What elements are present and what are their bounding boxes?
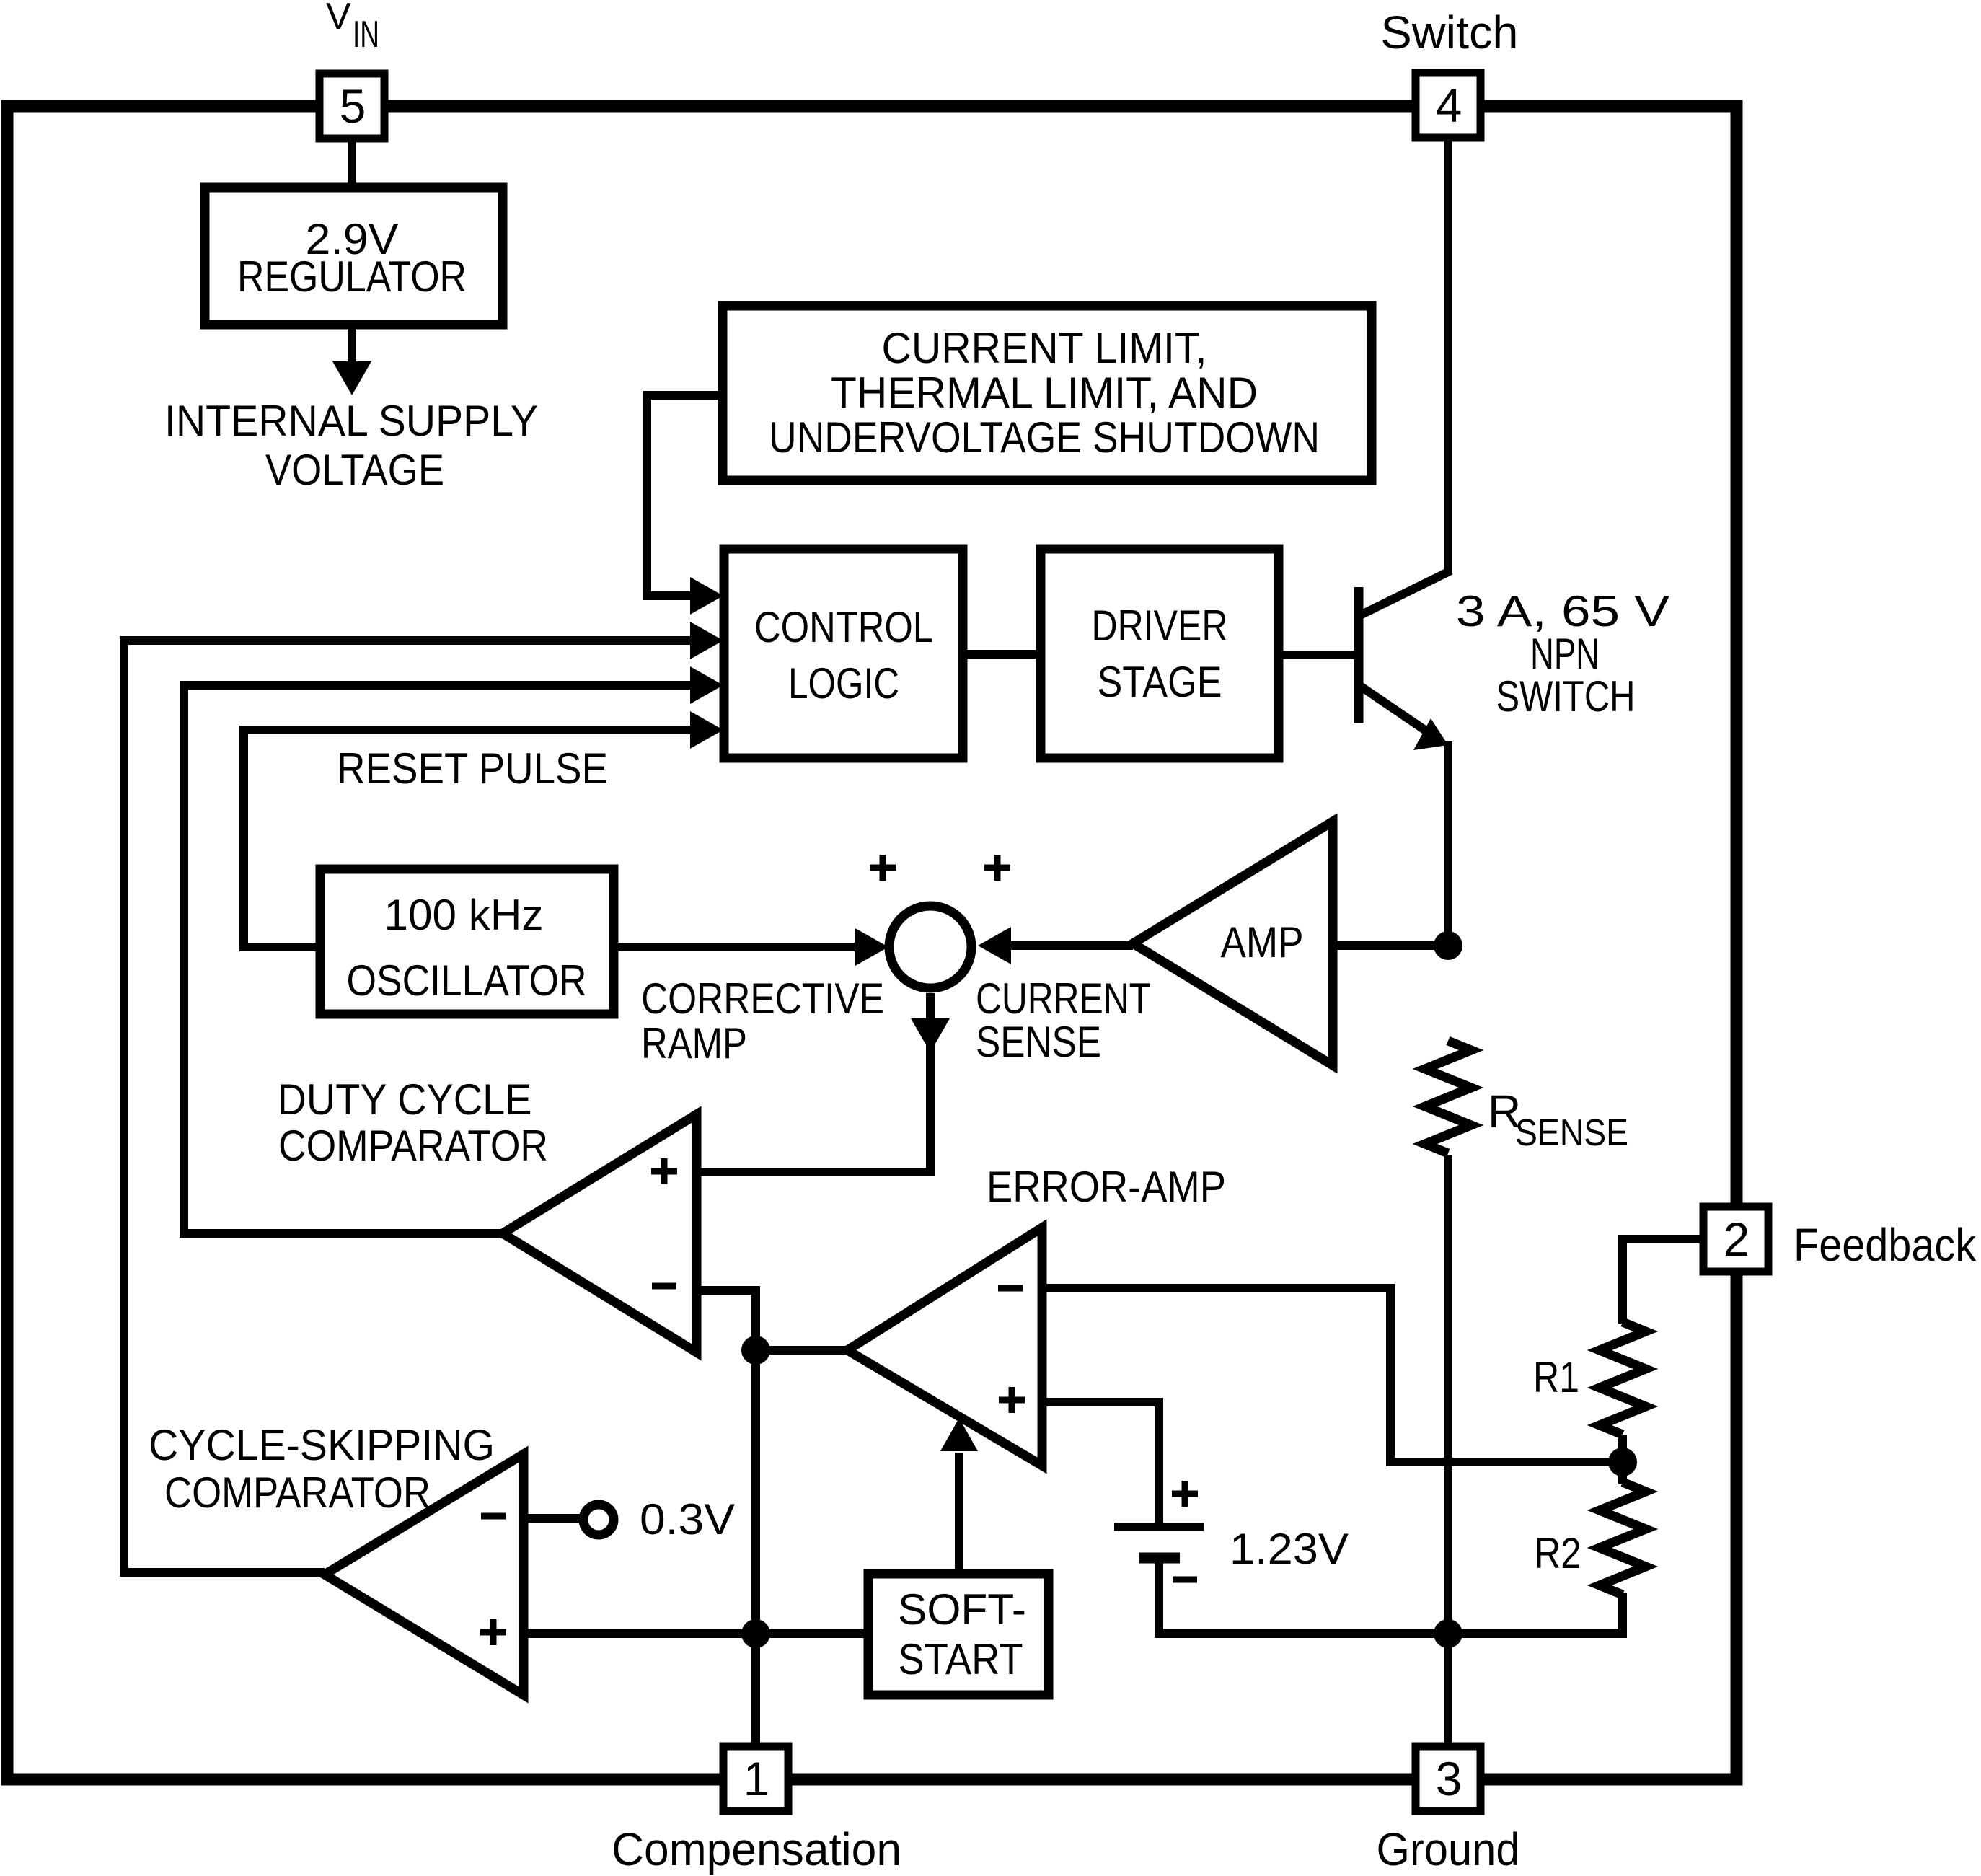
pin label Switch: [1381, 6, 1519, 58]
plus sign battery: [1172, 1481, 1198, 1507]
wire error amp minus input to feedback divider: [1042, 1288, 1623, 1462]
net label CORRECTIVE RAMP: [641, 974, 884, 1067]
value label 0.3V: [640, 1495, 735, 1543]
svg-text:RAMP: RAMP: [641, 1019, 747, 1067]
svg-text:CORRECTIVE: CORRECTIVE: [641, 974, 884, 1023]
net label CURRENT SENSE: [976, 974, 1151, 1066]
svg-text:Ground: Ground: [1377, 1823, 1520, 1875]
value label RSENSE: [1488, 1085, 1628, 1154]
plus sign at summing junction right input: [984, 855, 1010, 881]
svg-text:1.23V: 1.23V: [1230, 1525, 1349, 1573]
wire driver stage to transistor base: [1279, 651, 1359, 659]
wire pin5 to regulator: [348, 138, 356, 189]
pin 5 box: [319, 74, 384, 138]
svg-text:DRIVER: DRIVER: [1092, 602, 1228, 650]
svg-text:Feedback: Feedback: [1794, 1219, 1977, 1271]
resistor RSENSE: [1425, 1041, 1471, 1634]
pin label Compensation: [612, 1823, 901, 1875]
net label RESET PULSE: [337, 744, 608, 793]
block SOFT-START: [868, 1574, 1049, 1695]
svg-text:R1: R1: [1533, 1353, 1579, 1401]
battery 1.23V reference: [1114, 1527, 1204, 1558]
op-amp error amplifier: [847, 1228, 1042, 1466]
svg-text:3: 3: [1436, 1752, 1462, 1805]
pin label Ground: [1377, 1823, 1520, 1875]
svg-text:CYCLE-SKIPPING: CYCLE-SKIPPING: [149, 1421, 495, 1469]
plus sign at summing junction left input: [870, 855, 896, 881]
plus sign cycle-skipping comparator input: [480, 1619, 506, 1645]
plus sign error amp input: [999, 1387, 1025, 1413]
op-amp duty cycle comparator: [503, 1114, 697, 1352]
wire feedback pin to R1: [1623, 1239, 1703, 1324]
svg-text:Switch: Switch: [1381, 6, 1519, 58]
junction dot error amp output: [741, 1336, 770, 1365]
wire error amp output: [756, 1346, 847, 1355]
svg-text:CONTROL: CONTROL: [754, 603, 933, 651]
outer border of IC block: [7, 106, 1737, 1779]
pin 4 box: [1416, 73, 1481, 138]
label CYCLE-SKIPPING COMPARATOR: [149, 1421, 495, 1517]
block CURRENT LIMIT, THERMAL LIMIT, AND UNDERVOLTAGE SHUTDOWN: [723, 306, 1372, 480]
wire corrective ramp: summing junction down to duty cycle comparator plus input: [697, 993, 950, 1172]
junction dot compensation node: [741, 1619, 770, 1648]
transistor Q1 emitter with arrow: [1360, 686, 1448, 946]
value label R1: [1533, 1353, 1579, 1401]
pin 3 box: [1416, 1746, 1481, 1811]
transistor Q1 base bar: [1354, 587, 1364, 723]
summing junction circle: [889, 906, 971, 988]
svg-text:INTERNAL SUPPLY: INTERNAL SUPPLY: [164, 397, 538, 445]
pin label Feedback: [1794, 1219, 1977, 1271]
op-amp cycle-skipping comparator: [325, 1454, 524, 1695]
svg-text:STAGE: STAGE: [1098, 658, 1222, 706]
svg-text:VOLTAGE: VOLTAGE: [265, 446, 444, 494]
svg-text:R2: R2: [1535, 1529, 1581, 1577]
transistor Q1 collector: [1360, 138, 1451, 615]
svg-text:AMP: AMP: [1221, 918, 1304, 966]
svg-text:DUTY CYCLE: DUTY CYCLE: [278, 1075, 532, 1124]
plus sign duty cycle comparator input: [651, 1158, 677, 1184]
svg-text:100 kHz: 100 kHz: [384, 891, 544, 939]
block CONTROL LOGIC: [724, 549, 963, 758]
junction dot ground node: [1434, 1619, 1462, 1648]
wire error amp plus input to 1.23V reference: [1042, 1402, 1159, 1523]
minus sign error amp input: [998, 1285, 1023, 1292]
node label INTERNAL SUPPLY VOLTAGE: [164, 397, 538, 494]
wire switch node to AMP input: [1333, 941, 1448, 950]
wire AMP output to summing junction (arrow): [978, 927, 1133, 964]
svg-text:SOFT-: SOFT-: [898, 1585, 1026, 1634]
value label 1.23V: [1230, 1525, 1349, 1573]
svg-text:V: V: [326, 0, 351, 38]
svg-text:CURRENT: CURRENT: [976, 974, 1151, 1023]
svg-text:THERMAL LIMIT, AND: THERMAL LIMIT, AND: [831, 369, 1258, 417]
svg-text:2: 2: [1724, 1212, 1750, 1266]
svg-text:COMPARATOR: COMPARATOR: [278, 1122, 548, 1170]
svg-text:START: START: [899, 1635, 1023, 1683]
svg-text:1: 1: [744, 1752, 770, 1805]
svg-text:COMPARATOR: COMPARATOR: [164, 1468, 431, 1517]
block 2.9V REGULATOR: [205, 188, 503, 325]
wire current-limit block to control logic (arrow 1): [647, 395, 723, 615]
wire ground node to pin 3: [1444, 1634, 1452, 1746]
wire oscillator to summing junction (arrow): [613, 928, 888, 966]
pin 2 box: [1703, 1207, 1768, 1272]
svg-text:0.3V: 0.3V: [640, 1495, 735, 1543]
arrow regulator output down: [332, 325, 371, 395]
wire cycle-skipping comparator output to control logic (arrow 2): [124, 622, 723, 1572]
svg-text:REGULATOR: REGULATOR: [237, 252, 467, 301]
pin 1 box: [723, 1746, 788, 1811]
svg-text:IN: IN: [353, 14, 379, 56]
junction dot switch node: [1434, 931, 1462, 960]
minus sign battery: [1173, 1577, 1197, 1583]
svg-text:CURRENT LIMIT,: CURRENT LIMIT,: [882, 324, 1207, 372]
value label R2: [1535, 1529, 1581, 1577]
svg-text:OSCILLATOR: OSCILLATOR: [347, 956, 587, 1005]
op-amp AMP current sense amplifier: [1133, 822, 1333, 1065]
resistor R2: [1600, 1462, 1646, 1595]
wire control logic to driver stage: [963, 650, 1042, 659]
svg-text:SENSE: SENSE: [976, 1018, 1101, 1066]
svg-text:RESET PULSE: RESET PULSE: [337, 744, 608, 793]
wire RESET PULSE oscillator to control logic (arrow 4): [244, 711, 723, 947]
wire cycle-skipping minus input to 0.3V source: [522, 1514, 581, 1523]
block 100 kHz OSCILLATOR: [320, 869, 614, 1014]
svg-text:3 A, 65 V: 3 A, 65 V: [1456, 587, 1669, 635]
svg-text:ERROR-AMP: ERROR-AMP: [987, 1163, 1226, 1211]
wire duty cycle comparator output to control logic (arrow 3): [184, 666, 723, 1233]
junction dot feedback divider: [1608, 1448, 1637, 1476]
svg-text:LOGIC: LOGIC: [788, 659, 899, 708]
minus sign duty cycle comparator input: [652, 1283, 676, 1290]
label ERROR-AMP: [987, 1163, 1226, 1211]
block DRIVER STAGE: [1041, 549, 1279, 758]
svg-text:UNDERVOLTAGE SHUTDOWN: UNDERVOLTAGE SHUTDOWN: [769, 413, 1320, 462]
pin label VIN: [326, 0, 379, 56]
terminal circle 0.3V: [583, 1505, 614, 1535]
wire cycle-skipping plus input to compensation node and soft-start: [522, 1629, 868, 1638]
svg-text:4: 4: [1436, 79, 1462, 132]
svg-text:SENSE: SENSE: [1515, 1112, 1628, 1154]
wire duty cycle comparator minus input to compensation node: [697, 1290, 756, 1746]
wire battery minus to ground bus and R2 bottom: [1159, 1562, 1623, 1634]
minus sign cycle-skipping comparator input: [481, 1513, 506, 1520]
resistor R1: [1600, 1322, 1646, 1462]
label 3 A, 65 V NPN SWITCH: [1456, 587, 1669, 721]
svg-text:Compensation: Compensation: [612, 1823, 901, 1875]
label DUTY CYCLE COMPARATOR: [278, 1075, 549, 1170]
svg-text:SWITCH: SWITCH: [1496, 672, 1636, 721]
svg-text:NPN: NPN: [1530, 630, 1600, 678]
svg-text:5: 5: [340, 79, 366, 133]
wire soft-start to error amp (arrow up): [940, 1418, 978, 1574]
